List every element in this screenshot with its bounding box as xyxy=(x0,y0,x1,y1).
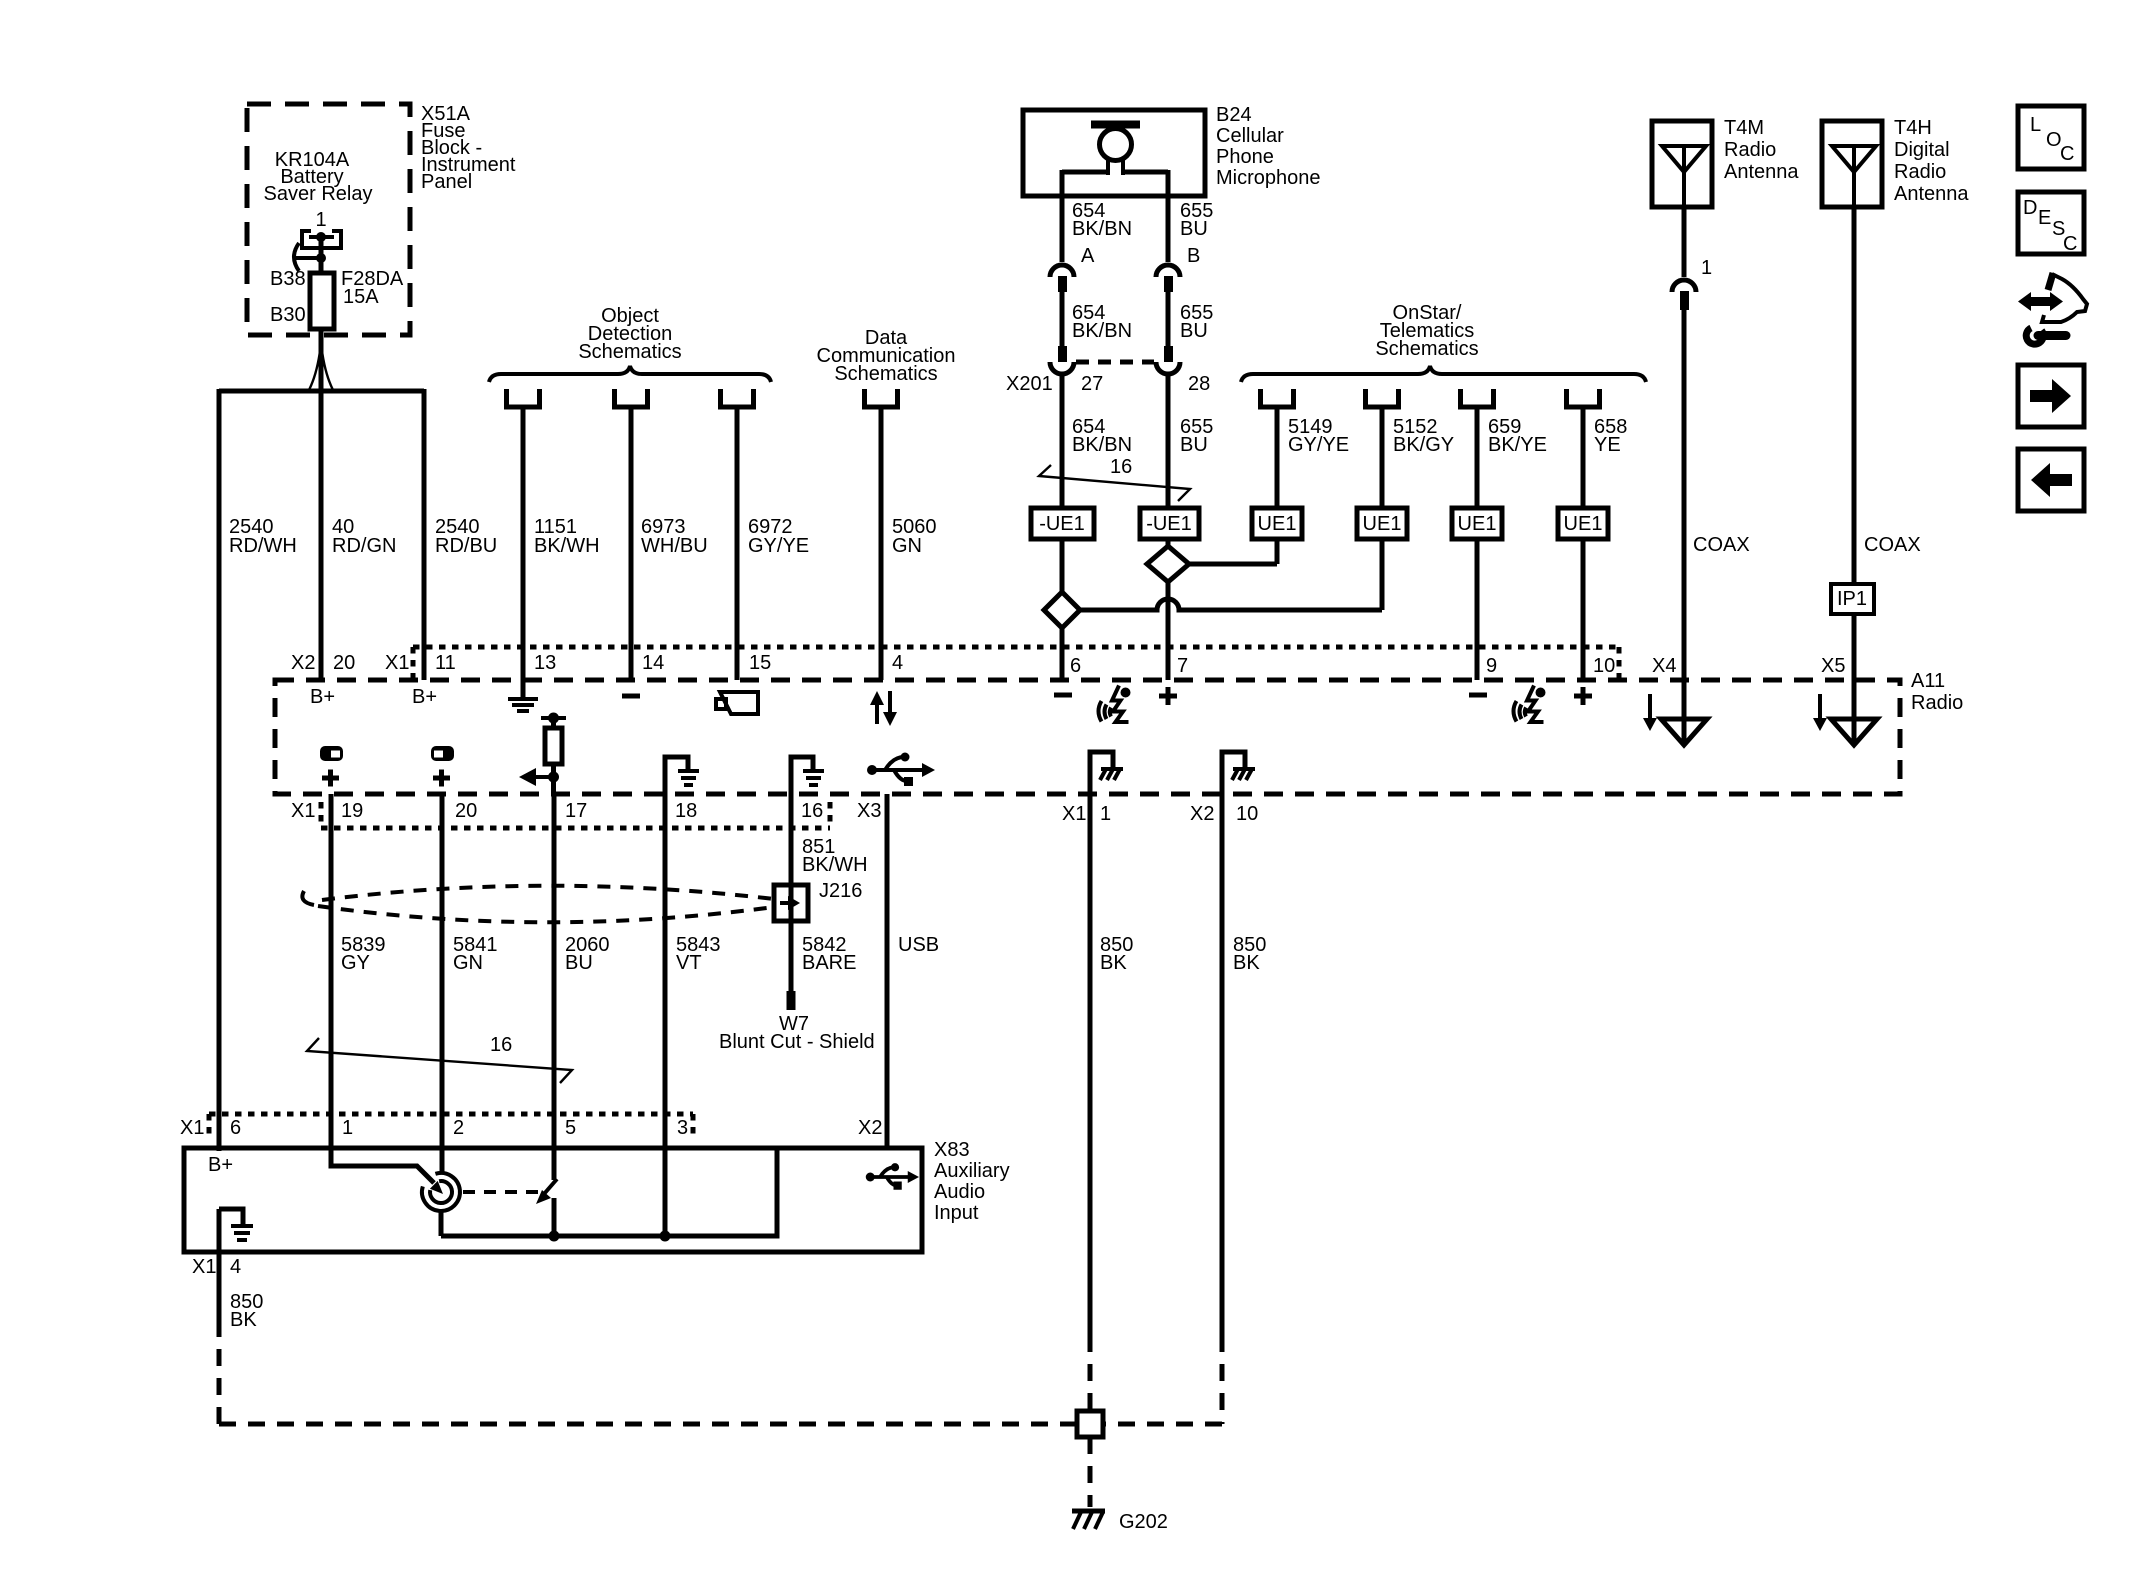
svg-text:UE1: UE1 xyxy=(1363,513,1402,535)
svg-text:-UE1: -UE1 xyxy=(1146,513,1192,535)
splice pack UE1 on 659 xyxy=(1452,508,1502,539)
svg-text:6: 6 xyxy=(230,1117,241,1139)
svg-text:RD/WH: RD/WH xyxy=(229,535,297,557)
inline connector A xyxy=(1050,265,1074,292)
splice pack UE1 on 5149 xyxy=(1252,508,1302,539)
svg-text:X201: X201 xyxy=(1006,373,1053,395)
svg-text:16: 16 xyxy=(1110,456,1132,478)
svg-text:-UE1: -UE1 xyxy=(1039,513,1085,535)
svg-text:Saver Relay: Saver Relay xyxy=(264,183,373,205)
wire 659 to radio pin 9 xyxy=(1475,539,1480,680)
connector to object detection 2 xyxy=(615,389,648,407)
coax T4M upper xyxy=(1682,207,1687,277)
wire 655 BU mid xyxy=(1166,292,1171,346)
dashed drop to G202 xyxy=(1088,1437,1093,1507)
radio internal minus at pin 9 xyxy=(1469,693,1487,698)
radio pin labels row 1 xyxy=(291,652,1845,677)
mic lead A xyxy=(1060,170,1065,262)
svg-text:GY: GY xyxy=(341,952,370,974)
svg-text:X2: X2 xyxy=(291,652,315,674)
svg-text:Phone: Phone xyxy=(1216,146,1274,168)
svg-text:13: 13 xyxy=(534,652,556,674)
svg-text:Radio: Radio xyxy=(1724,139,1776,161)
OnStar brace xyxy=(1241,366,1646,382)
wire 40 RD/GN xyxy=(319,391,324,680)
connector X201 pin 28 xyxy=(1156,346,1180,374)
coax T4M to radio X4 xyxy=(1682,310,1687,743)
svg-text:BU: BU xyxy=(565,952,593,974)
svg-text:BK/WH: BK/WH xyxy=(802,854,868,876)
Data Communication Schematics label xyxy=(817,327,956,385)
svg-text:T4M: T4M xyxy=(1724,117,1764,139)
X83 switch arrow on wire pin5 xyxy=(536,1148,557,1236)
svg-text:BK: BK xyxy=(1100,952,1127,974)
radio internal minus at pin 14 xyxy=(622,694,640,699)
svg-text:X2: X2 xyxy=(858,1117,882,1139)
svg-text:COAX: COAX xyxy=(1864,534,1921,556)
svg-text:A11: A11 xyxy=(1911,670,1945,692)
svg-text:1: 1 xyxy=(342,1117,353,1139)
svg-text:BARE: BARE xyxy=(802,952,856,974)
wire 658 YE xyxy=(1581,409,1586,508)
icon box arrow-right xyxy=(2018,365,2084,427)
splice diamond on 655 xyxy=(1147,546,1189,582)
svg-text:Auxiliary: Auxiliary xyxy=(934,1160,1010,1182)
wire 2060 BU xyxy=(552,794,557,1148)
wire 654 below UE1 xyxy=(1060,539,1065,592)
wire fuse to splice fan xyxy=(319,329,324,391)
icon box LOC xyxy=(2018,106,2084,169)
radio internal chassis gnd X1:1 xyxy=(1090,752,1123,794)
wire 5149 GY/YE xyxy=(1275,409,1280,508)
svg-text:10: 10 xyxy=(1236,803,1258,825)
svg-text:E: E xyxy=(2038,207,2051,229)
Object Detection brace xyxy=(489,366,771,382)
svg-text:1: 1 xyxy=(1100,803,1111,825)
svg-text:Digital: Digital xyxy=(1894,139,1950,161)
svg-text:2: 2 xyxy=(453,1117,464,1139)
radio internal battery icon pin 19 xyxy=(320,746,343,787)
X201 dashed tie xyxy=(1076,360,1154,365)
radio internal ground at pin 18 xyxy=(665,757,699,794)
svg-text:4: 4 xyxy=(230,1256,241,1278)
splice fan xyxy=(309,343,321,390)
svg-text:Antenna: Antenna xyxy=(1894,183,1969,205)
svg-text:BU: BU xyxy=(1180,434,1208,456)
wire 6973 WH/BU xyxy=(629,409,634,680)
twisted pair marker 16 lower xyxy=(307,1034,572,1083)
wire 1151 BK/WH xyxy=(521,409,526,680)
svg-text:1: 1 xyxy=(315,209,326,231)
radio internal chassis gnd X2:10 xyxy=(1222,752,1255,794)
svg-text:14: 14 xyxy=(642,652,664,674)
icon swap-wrench xyxy=(2018,273,2087,344)
X83 aux audio input box xyxy=(184,1148,922,1252)
svg-text:16: 16 xyxy=(801,800,823,822)
svg-text:17: 17 xyxy=(565,800,587,822)
svg-text:X1: X1 xyxy=(192,1256,216,1278)
wire 655 BU lower xyxy=(1166,376,1171,508)
svg-text:A: A xyxy=(1081,245,1095,267)
X83 internal ground stub xyxy=(219,1209,253,1240)
svg-text:B24: B24 xyxy=(1216,104,1252,126)
svg-text:B+: B+ xyxy=(310,686,335,708)
svg-text:Audio: Audio xyxy=(934,1181,985,1203)
svg-text:B+: B+ xyxy=(412,686,437,708)
svg-text:C: C xyxy=(2060,143,2074,165)
svg-text:X3: X3 xyxy=(857,800,881,822)
fuse block label X51A xyxy=(421,103,516,193)
radio connector X1 bottom dotted row xyxy=(321,802,830,828)
svg-text:GN: GN xyxy=(892,535,922,557)
svg-text:GY/YE: GY/YE xyxy=(1288,434,1349,456)
G202 junction square xyxy=(1077,1411,1103,1437)
svg-text:Input: Input xyxy=(934,1202,979,1224)
radio internal ground at pin 16 xyxy=(791,757,824,794)
microphone B24 box xyxy=(1023,110,1205,196)
svg-text:COAX: COAX xyxy=(1693,534,1750,556)
svg-text:15A: 15A xyxy=(343,286,379,308)
wire 5841 GN xyxy=(440,794,445,1148)
svg-text:YE: YE xyxy=(1594,434,1621,456)
svg-text:X83: X83 xyxy=(934,1139,970,1161)
splice diamond on 654 xyxy=(1044,592,1080,628)
connector IP1 xyxy=(1831,584,1874,614)
radio internal plus at pin 7 xyxy=(1159,687,1177,705)
wire 850 BK from radio X1:1 xyxy=(1088,794,1093,1335)
icon box arrow-left xyxy=(2018,449,2084,511)
splice pack -UE1 on 654 xyxy=(1031,508,1094,539)
X83 wire pin3 xyxy=(663,1148,668,1236)
svg-text:Panel: Panel xyxy=(421,171,472,193)
OnStar Telematics label xyxy=(1375,302,1478,360)
svg-text:BK/GY: BK/GY xyxy=(1393,434,1454,456)
svg-text:10: 10 xyxy=(1593,655,1615,677)
icon box DESC xyxy=(2018,192,2084,255)
svg-text:9: 9 xyxy=(1486,655,1497,677)
wire 5839 GY xyxy=(329,794,334,1148)
wire 5152 BK/GY xyxy=(1380,409,1385,508)
svg-text:VT: VT xyxy=(676,952,702,974)
svg-text:BK: BK xyxy=(1233,952,1260,974)
fuse block X51A dashed outline xyxy=(247,104,410,335)
wire splice 654 to 5152 with hop xyxy=(1080,539,1382,610)
svg-text:D: D xyxy=(2023,197,2037,219)
splice pack UE1 on 658 xyxy=(1558,508,1608,539)
svg-text:16: 16 xyxy=(490,1034,512,1056)
X83 connector dotted row xyxy=(209,1114,693,1140)
wire 659 BK/YE xyxy=(1475,409,1480,508)
radio internal USB icon X3 xyxy=(867,753,935,787)
svg-text:X1: X1 xyxy=(385,652,409,674)
svg-text:27: 27 xyxy=(1081,373,1103,395)
splice pack -UE1 on 655 xyxy=(1140,508,1199,539)
svg-text:Microphone: Microphone xyxy=(1216,167,1321,189)
svg-text:6: 6 xyxy=(1070,655,1081,677)
svg-text:Schematics: Schematics xyxy=(1375,338,1478,360)
ground G202 xyxy=(1072,1511,1168,1533)
coax T4H to radio X5 xyxy=(1852,614,1857,743)
wire 5843 VT xyxy=(663,794,668,1148)
wire 850 BK from radio X2:10 xyxy=(1220,794,1225,1335)
svg-text:X4: X4 xyxy=(1652,655,1676,677)
svg-text:USB: USB xyxy=(898,934,939,956)
wire 654 BK/BN mid xyxy=(1060,292,1065,346)
inline connector 1 on T4M coax xyxy=(1672,257,1712,310)
radio pin labels X1:1 X2:10 xyxy=(1062,803,1258,825)
svg-text:Antenna: Antenna xyxy=(1724,161,1799,183)
svg-text:BU: BU xyxy=(1180,218,1208,240)
svg-text:GN: GN xyxy=(453,952,483,974)
svg-text:11: 11 xyxy=(435,652,456,674)
svg-text:20: 20 xyxy=(455,800,477,822)
USB wire X3 to X83 xyxy=(885,794,890,1148)
svg-text:BK/YE: BK/YE xyxy=(1488,434,1547,456)
svg-text:J216: J216 xyxy=(819,880,862,902)
splice pack UE1 on 5152 xyxy=(1357,508,1407,539)
radio internal antenna X4 xyxy=(1643,694,1707,745)
B24 label xyxy=(1216,104,1321,189)
antenna T4M box xyxy=(1652,121,1712,207)
X83 pin labels xyxy=(180,1117,882,1139)
svg-text:GY/YE: GY/YE xyxy=(748,535,809,557)
twisted pair marker 16 xyxy=(1039,456,1190,501)
wire 6972 GY/YE xyxy=(735,409,740,680)
svg-text:15: 15 xyxy=(749,652,771,674)
connector to data communication xyxy=(865,389,898,407)
radio internal minus at pin 6 xyxy=(1054,693,1072,698)
svg-text:UE1: UE1 xyxy=(1258,513,1297,535)
svg-text:X2: X2 xyxy=(1190,803,1214,825)
svg-text:Schematics: Schematics xyxy=(834,363,937,385)
svg-text:G202: G202 xyxy=(1119,1511,1168,1533)
coax T4H upper xyxy=(1852,207,1857,584)
svg-text:B30: B30 xyxy=(270,304,306,326)
Object Detection Schematics label xyxy=(578,305,681,363)
svg-text:B38: B38 xyxy=(270,268,306,290)
wire 5060 GN xyxy=(879,409,884,680)
svg-text:BK/BN: BK/BN xyxy=(1072,434,1132,456)
svg-text:Radio: Radio xyxy=(1894,161,1946,183)
microphone symbol xyxy=(1062,125,1168,176)
svg-text:18: 18 xyxy=(675,800,697,822)
wire splice 655 to 5149 xyxy=(1189,539,1277,564)
radio connector X1 dotted row xyxy=(413,647,1619,680)
svg-text:X5: X5 xyxy=(1821,655,1845,677)
wire 851 BK/WH xyxy=(789,794,794,991)
wire 654 to radio pin 6 xyxy=(1060,628,1065,680)
wire 655 below UE1 xyxy=(1166,539,1171,546)
svg-text:L: L xyxy=(2030,114,2041,136)
svg-text:28: 28 xyxy=(1188,373,1210,395)
radio internal voice icon 1 xyxy=(1099,686,1131,723)
svg-text:RD/GN: RD/GN xyxy=(332,535,396,557)
inline connector B xyxy=(1156,265,1180,292)
X83 dashed jack link xyxy=(463,1190,538,1194)
relay KR104A label xyxy=(264,149,373,231)
svg-text:1: 1 xyxy=(1701,257,1712,279)
svg-text:IP1: IP1 xyxy=(1837,588,1867,610)
svg-text:Cellular: Cellular xyxy=(1216,125,1284,147)
connector to onstar 1 xyxy=(1261,389,1294,407)
svg-text:20: 20 xyxy=(333,652,355,674)
connector X201 pin 27 xyxy=(1050,346,1074,374)
svg-text:19: 19 xyxy=(341,800,363,822)
X83 internal USB icon xyxy=(866,1163,919,1190)
radio A11 dashed outline xyxy=(275,680,1900,794)
wire relay to fuse xyxy=(319,237,324,273)
X83 internal bus xyxy=(441,1148,777,1236)
wire X83 X1:4 xyxy=(217,1209,222,1337)
svg-text:Schematics: Schematics xyxy=(578,341,681,363)
shield ellipse xyxy=(322,886,774,900)
svg-text:X1: X1 xyxy=(291,800,315,822)
radio internal resistor at pin 17 xyxy=(519,713,566,795)
radio internal plus at pin 10 xyxy=(1574,687,1592,705)
radio internal ground at pin 13 xyxy=(508,680,538,711)
splice bar xyxy=(219,389,424,394)
svg-text:BK/WH: BK/WH xyxy=(534,535,600,557)
svg-text:X1: X1 xyxy=(180,1117,204,1139)
svg-text:BU: BU xyxy=(1180,320,1208,342)
radio pin labels row 2 xyxy=(291,800,881,822)
wire 2540 RD/WH xyxy=(217,389,222,1151)
svg-text:C: C xyxy=(2063,233,2077,255)
svg-text:B: B xyxy=(1187,245,1200,267)
svg-text:7: 7 xyxy=(1177,655,1188,677)
wire 658 to radio pin 10 xyxy=(1581,539,1586,680)
radio internal battery icon pin 20 xyxy=(431,746,454,787)
svg-text:3: 3 xyxy=(677,1117,688,1139)
svg-text:B+: B+ xyxy=(208,1154,233,1176)
svg-text:BK/BN: BK/BN xyxy=(1072,218,1132,240)
connector to onstar 4 xyxy=(1567,389,1600,407)
svg-text:UE1: UE1 xyxy=(1458,513,1497,535)
X83 audio jack spiral on wire pin2 xyxy=(422,1148,460,1236)
wire 654 BK/BN lower xyxy=(1060,376,1065,508)
svg-text:WH/BU: WH/BU xyxy=(641,535,708,557)
radio internal camera icon at pin 15 xyxy=(716,692,758,714)
mic lead B xyxy=(1166,170,1171,262)
relay KR104A contact symbol xyxy=(294,231,341,271)
J216 connector xyxy=(774,880,862,921)
svg-text:Blunt Cut - Shield: Blunt Cut - Shield xyxy=(719,1031,875,1053)
connector to object detection 1 xyxy=(507,389,540,407)
svg-text:RD/BU: RD/BU xyxy=(435,535,497,557)
wire 655 to radio pin 7 xyxy=(1166,582,1171,680)
svg-text:BK/BN: BK/BN xyxy=(1072,320,1132,342)
connector to object detection 3 xyxy=(721,389,754,407)
radio internal voice icon 2 xyxy=(1514,686,1546,723)
svg-text:5: 5 xyxy=(565,1117,576,1139)
radio internal data arrows at pin 4 xyxy=(870,691,897,726)
connector to onstar 3 xyxy=(1461,389,1494,407)
antenna T4H box xyxy=(1822,121,1882,207)
W7 blunt cut xyxy=(719,991,875,1053)
svg-text:BK: BK xyxy=(230,1309,257,1331)
svg-text:X1: X1 xyxy=(1062,803,1086,825)
svg-text:4: 4 xyxy=(892,652,903,674)
svg-text:T4H: T4H xyxy=(1894,117,1932,139)
X83 wire pin1 to jack xyxy=(331,1148,434,1183)
radio internal antenna X5 xyxy=(1813,694,1877,745)
svg-text:Radio: Radio xyxy=(1911,692,1963,714)
wire 2540 RD/BU xyxy=(422,389,427,680)
connector to onstar 2 xyxy=(1366,389,1399,407)
svg-text:UE1: UE1 xyxy=(1564,513,1603,535)
